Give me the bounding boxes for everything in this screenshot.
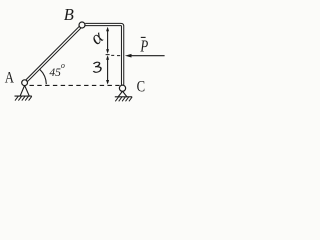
support legs A xyxy=(20,85,29,95)
svg-text:A: A xyxy=(5,69,15,87)
ground line A xyxy=(15,95,32,97)
small dashes at force level xyxy=(106,55,121,56)
label a lower xyxy=(92,62,101,73)
dimension line upper segment xyxy=(107,29,109,53)
svg-text:B: B xyxy=(64,5,74,24)
ground line C xyxy=(115,96,132,98)
svg-text:P: P xyxy=(140,38,149,56)
45 degree arc at A xyxy=(40,69,47,84)
support legs C xyxy=(118,91,127,96)
bar A-B xyxy=(27,27,80,80)
hatching A xyxy=(15,96,32,100)
dimension line lower segment xyxy=(107,57,109,83)
bar B-corner-C xyxy=(85,25,122,85)
hatching C xyxy=(115,97,132,101)
hinge circle A xyxy=(22,80,28,86)
force arrow P xyxy=(131,55,165,57)
svg-text:C: C xyxy=(137,78,145,95)
hinge circle B xyxy=(79,22,85,28)
hinge circle C xyxy=(119,85,125,91)
dashed baseline A to C xyxy=(30,84,120,86)
